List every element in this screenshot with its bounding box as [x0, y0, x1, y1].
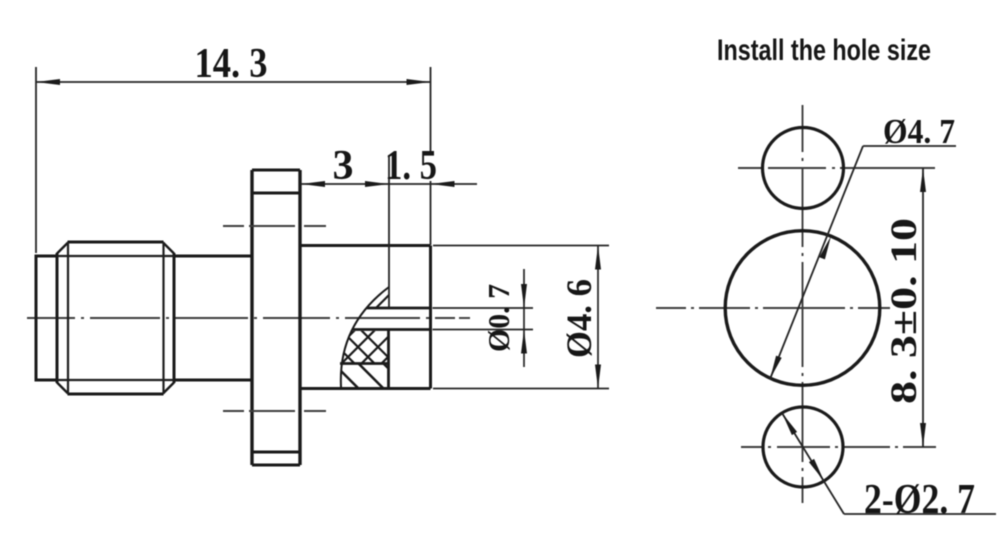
section block edge lines [340, 362, 389, 365]
svg-text:Ø0. 7: Ø0. 7 [481, 284, 516, 352]
centerline: flange mounting holes [223, 226, 327, 411]
svg-text:Ø4. 6: Ø4. 6 [559, 279, 599, 358]
arrowhead of dimension 1.5 [431, 181, 455, 187]
insulator crosshatch below pin [318, 327, 418, 367]
dimensions 3 and 1.5: extension and dimension lines [301, 155, 477, 308]
arrowhead top of dimension 8.3 [920, 168, 926, 192]
section hatching [318, 284, 418, 392]
arrowhead bottom of dimension 8.3 [920, 423, 926, 447]
dimension 8.3±0.10 line [922, 168, 924, 447]
svg-text:Install the hole size: Install the hole size [717, 34, 931, 67]
top mounting hole circle [763, 128, 844, 209]
leader line for 2-Ø2.7 [782, 413, 996, 514]
body section between hex nut and flange [174, 256, 252, 380]
dimension Ø4.6: extension and dimension lines [433, 246, 609, 389]
dimension Ø0.7: extension and dimension lines [433, 269, 534, 367]
arrowhead lower of 2-Ø2.7 [809, 459, 824, 481]
svg-text:2-Ø2. 7: 2-Ø2. 7 [864, 477, 975, 523]
svg-text:Ø4. 7: Ø4. 7 [883, 112, 955, 151]
arrowhead top of dimension Ø0.7 [521, 284, 527, 308]
connector rear sleeve outline [35, 256, 58, 380]
hex nut chamfer arc lines [57, 256, 174, 380]
hex nut flat boundary edges [68, 242, 164, 394]
arrowhead right of dimension 3 [365, 181, 389, 187]
dimension 14.3: extension and dimension lines [36, 67, 431, 253]
arrowhead right of dimension 14.3 [407, 79, 431, 85]
front body outline (flange to end face) [300, 246, 431, 389]
leader line for Ø4.7 [770, 146, 956, 379]
centerline: big hole horizontal [656, 307, 890, 309]
centerline: top hole horizontal [738, 167, 935, 169]
centerline: main connector axis [27, 317, 470, 319]
bottom mounting hole circle [763, 407, 843, 487]
svg-text:14. 3: 14. 3 [195, 41, 268, 87]
centerline: vertical axis of hole pattern [802, 105, 804, 503]
svg-text:8. 3±0. 10: 8. 3±0. 10 [884, 218, 925, 404]
arrowhead bottom of dimension Ø4.6 [595, 365, 601, 389]
hex nut corner chamfer edges [57, 243, 174, 394]
arrowhead left of dimension 3 [301, 181, 325, 187]
center hole circle Ø4.7 [725, 231, 880, 386]
value label Ø4.6 [559, 279, 599, 358]
arrowhead upper of Ø4.7 diameter [819, 236, 831, 259]
partial-section break line [341, 287, 389, 387]
svg-text:3: 3 [333, 143, 354, 189]
arrowhead top of dimension Ø4.6 [595, 246, 601, 270]
arrowhead left of dimension 14.3 [36, 79, 60, 85]
arrowhead bottom of dimension Ø0.7 [521, 330, 527, 354]
svg-text:1. 5: 1. 5 [385, 143, 437, 189]
arrowhead upper of 2-Ø2.7 [782, 413, 797, 435]
value label Ø0.7 [481, 284, 516, 352]
center pin conductor [353, 308, 431, 330]
hex nut outline [57, 242, 174, 394]
centerline: bottom hole horizontal [741, 446, 936, 448]
mounting flange outline [252, 170, 300, 465]
arrowhead lower of Ø4.7 diameter [770, 356, 782, 379]
body wall hatch at bottom [330, 360, 412, 392]
value label 8.3±0.10 [884, 218, 925, 404]
